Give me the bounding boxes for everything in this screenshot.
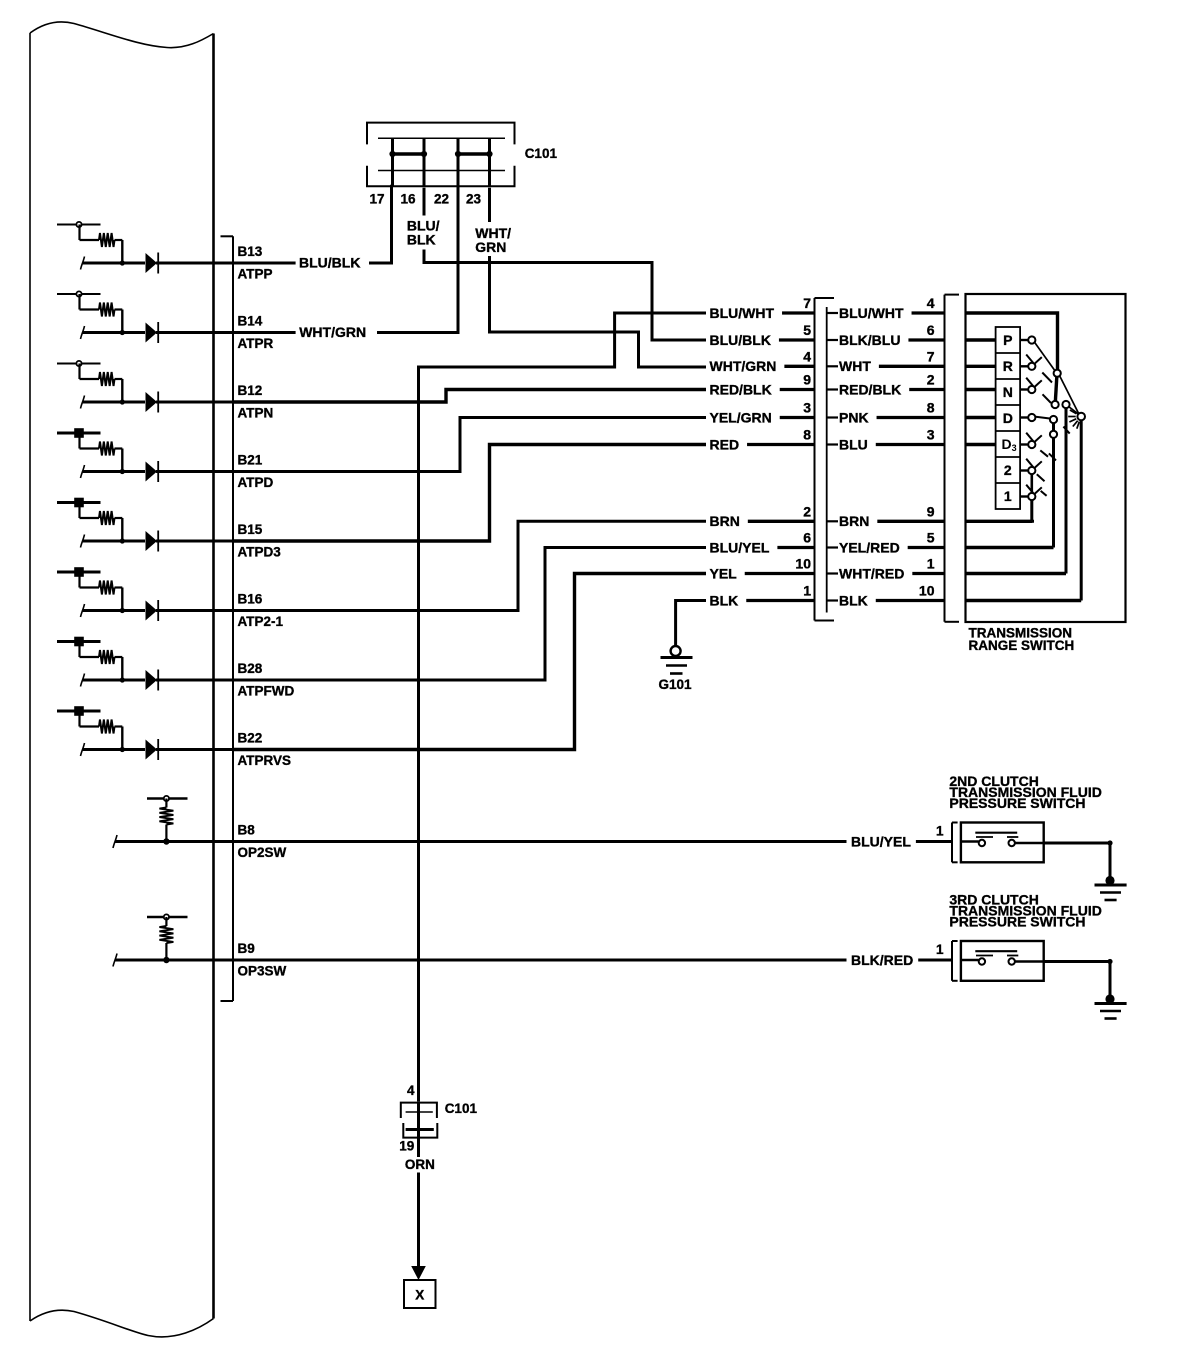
svg-text:5: 5 — [927, 530, 935, 546]
range-switch connector row: BLU/WHT pin 7 -> BLU/WHT pin 4 — [710, 295, 945, 321]
3RD clutch pressure switch label — [949, 892, 1101, 930]
svg-text:PRESSURE SWITCH: PRESSURE SWITCH — [949, 795, 1085, 811]
range switch internal wires from connector rows — [966, 313, 1082, 601]
range-switch connector row: BLU/YEL pin 6 -> YEL/RED pin 5 — [710, 530, 945, 556]
wire B9 internal — [115, 959, 233, 962]
wire B28 to ECU edge — [156, 679, 233, 682]
gear position contact studs and circles — [1020, 336, 1035, 500]
svg-text:B22: B22 — [238, 731, 263, 746]
switch travel dashes — [1037, 373, 1070, 496]
svg-text:22: 22 — [434, 192, 449, 207]
gear position contact block P/R/N/D/D3/2/1 — [996, 327, 1021, 509]
svg-text:B8: B8 — [238, 823, 256, 838]
wire B8 internal — [115, 840, 233, 843]
svg-text:BLU/BLK: BLU/BLK — [710, 332, 771, 348]
2ND clutch pressure switch connector bracket, pin 1 — [936, 823, 958, 863]
svg-text:9: 9 — [803, 372, 811, 388]
wire continuation slash for B28 — [81, 674, 85, 687]
svg-text:8: 8 — [927, 400, 935, 416]
range-switch connector row: YEL/GRN pin 3 -> PNK pin 8 — [710, 400, 945, 426]
svg-text:YEL/GRN: YEL/GRN — [710, 409, 772, 425]
connector C101 (bottom, pin 4 to 19) — [399, 1083, 477, 1154]
svg-text:2: 2 — [1004, 462, 1012, 478]
ECU pull-up cell for pin B8: supply stub and resistor — [113, 796, 287, 860]
ECU pull-up cell for pin B9: supply stub and resistor — [113, 914, 287, 978]
wire B12 internal — [83, 401, 146, 404]
range-switch connector left half bracket — [815, 298, 835, 621]
diode D-B16 — [146, 601, 158, 621]
svg-text:2: 2 — [927, 372, 935, 388]
ECU pull-up cell for pin B21: supply stub, resistor, diode — [57, 428, 273, 490]
wire B15 to RED row 6 — [233, 445, 706, 542]
svg-text:BLK: BLK — [407, 232, 436, 248]
svg-text:3: 3 — [927, 427, 935, 443]
ECU pull-up cell for pin B13: supply stub, resistor, diode — [57, 222, 273, 281]
svg-text:WHT/RED: WHT/RED — [839, 565, 904, 581]
svg-text:ATPD3: ATPD3 — [238, 544, 282, 559]
svg-text:2: 2 — [803, 503, 811, 519]
wire B12 to RED/BLK row 4 — [233, 390, 706, 403]
2ND clutch pressure switch label — [949, 773, 1101, 811]
svg-text:YEL: YEL — [710, 565, 738, 581]
diode D-B14 — [146, 323, 158, 343]
svg-text:C101: C101 — [525, 146, 558, 161]
wire continuation slash for B13 — [81, 257, 85, 270]
svg-text:PRESSURE SWITCH: PRESSURE SWITCH — [949, 914, 1085, 930]
svg-text:RED/BLK: RED/BLK — [839, 381, 901, 397]
2ND clutch pressure switch body — [961, 823, 1044, 863]
svg-text:5: 5 — [803, 322, 811, 338]
svg-text:3: 3 — [803, 400, 811, 416]
svg-text:WHT/GRN: WHT/GRN — [299, 324, 366, 340]
wire BLK/RED to 3RD clutch pressure switch — [233, 952, 951, 968]
connector C101 (top, pins 17/16/22/23) — [367, 123, 557, 207]
wire BLK row 10 to ground G101 — [676, 601, 706, 647]
svg-text:16: 16 — [400, 192, 416, 207]
svg-text:1: 1 — [1004, 488, 1012, 504]
wire B15 internal — [83, 540, 146, 543]
svg-text:ATPRVS: ATPRVS — [238, 753, 292, 768]
svg-text:ATP2-1: ATP2-1 — [238, 614, 284, 629]
wire continuation slash for B9 — [113, 954, 117, 967]
wire continuation slash for B8 — [113, 835, 117, 848]
range-switch connector row: RED pin 8 -> BLU pin 3 — [710, 427, 945, 453]
svg-text:23: 23 — [466, 192, 482, 207]
svg-text:ATPFWD: ATPFWD — [238, 683, 295, 698]
wire B14 WHT/GRN to C101 pin 22 — [233, 185, 458, 340]
range-switch connector row: YEL pin 10 -> WHT/RED pin 1 — [710, 556, 945, 582]
svg-text:6: 6 — [927, 322, 935, 338]
svg-text:1: 1 — [803, 583, 811, 599]
svg-text:C101: C101 — [445, 1101, 478, 1116]
diode D-B22 — [146, 740, 158, 760]
ground for 2ND clutch pressure switch — [1095, 876, 1127, 900]
wire B12 to ECU edge — [156, 401, 233, 404]
wire continuation slash for B15 — [81, 535, 85, 548]
svg-text:10: 10 — [795, 556, 811, 572]
svg-text:B14: B14 — [238, 314, 263, 329]
svg-text:BLU/BLK: BLU/BLK — [299, 255, 360, 271]
svg-text:D: D — [1003, 410, 1013, 426]
svg-text:YEL/RED: YEL/RED — [839, 539, 900, 555]
svg-text:BLK/RED: BLK/RED — [851, 952, 913, 968]
wire continuation slash for B14 — [81, 326, 85, 339]
svg-text:BLU/YEL: BLU/YEL — [710, 539, 770, 555]
svg-text:GRN: GRN — [475, 239, 506, 255]
ground G101 — [659, 646, 693, 692]
svg-text:G101: G101 — [659, 677, 693, 692]
svg-text:17: 17 — [369, 192, 384, 207]
svg-text:ATPD: ATPD — [238, 475, 274, 490]
range-switch connector row: BLK pin 1 -> BLK pin 10 — [710, 583, 945, 609]
wire continuation slash for B22 — [81, 743, 85, 756]
svg-text:OP2SW: OP2SW — [238, 845, 287, 860]
ECU pull-up cell for pin B22: supply stub, resistor, diode — [57, 706, 291, 768]
svg-text:1: 1 — [927, 556, 935, 572]
wire continuation slash for B21 — [81, 465, 85, 478]
wire B13 internal — [83, 262, 146, 265]
ECU module body (torn-edge outline) — [30, 22, 214, 1337]
svg-text:4: 4 — [407, 1083, 415, 1098]
svg-text:B21: B21 — [238, 453, 263, 468]
ECU pull-up cell for pin B28: supply stub, resistor, diode — [57, 637, 294, 699]
svg-text:RED/BLK: RED/BLK — [710, 381, 772, 397]
wire B16 internal — [83, 609, 146, 612]
svg-text:1: 1 — [936, 942, 944, 957]
svg-text:B16: B16 — [238, 592, 263, 607]
svg-text:1: 1 — [936, 824, 944, 839]
wiper pivot C and drop to WHT/RED row 9 — [1062, 401, 1069, 574]
svg-text:9: 9 — [927, 503, 935, 519]
svg-text:10: 10 — [919, 583, 935, 599]
svg-text:BLK: BLK — [710, 592, 739, 608]
wire B22 to YEL row 9 — [233, 574, 706, 750]
hub sunburst marks — [1068, 410, 1079, 429]
svg-text:WHT: WHT — [839, 358, 871, 374]
svg-text:BRN: BRN — [839, 513, 869, 529]
wire B22 internal — [83, 748, 146, 751]
wire BLU/YEL to 2ND clutch pressure switch — [233, 833, 951, 849]
svg-text:N: N — [1003, 384, 1013, 400]
svg-text:B12: B12 — [238, 383, 263, 398]
svg-text:B13: B13 — [238, 244, 263, 259]
diode D-B12 — [146, 392, 158, 412]
svg-text:BLU: BLU — [839, 436, 868, 452]
svg-text:BRN: BRN — [710, 513, 740, 529]
range-switch connector row: RED/BLK pin 9 -> RED/BLK pin 2 — [710, 372, 945, 398]
svg-text:B15: B15 — [238, 522, 263, 537]
contact line C to hub — [1069, 407, 1078, 414]
svg-text:7: 7 — [927, 348, 935, 364]
svg-text:ATPN: ATPN — [238, 405, 274, 420]
positions 2 and 1 common link to BRN row 7 — [1032, 474, 1034, 521]
wire continuation slash for B16 — [81, 604, 85, 617]
wire 2ND clutch switch to ground — [1044, 840, 1113, 878]
C101 internal joint 22-23 — [458, 152, 490, 155]
wiper hub with drop to BLK row 10 — [1077, 413, 1085, 601]
wiper bar (moving contact) with pivots — [1052, 370, 1061, 409]
svg-text:B9: B9 — [238, 941, 255, 956]
engaged contact line P to hub — [1035, 343, 1079, 414]
svg-text:OP3SW: OP3SW — [238, 963, 287, 978]
range-switch connector row: BRN pin 2 -> BRN pin 9 — [710, 503, 945, 529]
wire B22 to ECU edge — [156, 748, 233, 751]
wire BLU/WHT (row 1) to bottom C101 pin 4 — [419, 313, 707, 1102]
svg-text:BLU/WHT: BLU/WHT — [839, 305, 904, 321]
diode D-B15 — [146, 531, 158, 551]
3RD clutch pressure switch connector bracket, pin 1 — [936, 941, 958, 981]
wire ORN from C101 pin 19 to X — [405, 1131, 435, 1280]
wire B16 to BRN row 7 — [233, 521, 706, 610]
transmission range switch box — [966, 294, 1126, 622]
svg-text:WHT/GRN: WHT/GRN — [710, 358, 777, 374]
D position blade to wiper link — [1036, 417, 1050, 419]
svg-text:ATPP: ATPP — [238, 266, 273, 281]
svg-text:BLK: BLK — [839, 592, 868, 608]
svg-text:7: 7 — [803, 295, 811, 311]
ECU pull-up cell for pin B14: supply stub, resistor, diode — [57, 291, 273, 350]
range-switch connector row: WHT/GRN pin 4 -> WHT pin 7 — [710, 348, 945, 374]
wire B28 internal — [83, 679, 146, 682]
wire B21 to YEL/GRN row 5 — [233, 418, 706, 472]
wire B14 internal — [83, 331, 146, 334]
C101 internal joint 17-16 — [393, 152, 425, 155]
wire B13 to ECU edge — [156, 262, 233, 265]
svg-text:BLU/YEL: BLU/YEL — [851, 833, 911, 849]
wiper pivots E/F and drop to YEL/RED row 8 — [1050, 416, 1057, 548]
svg-text:BLU/WHT: BLU/WHT — [710, 305, 775, 321]
range-switch connector row: BLU/BLK pin 5 -> BLK/BLU pin 6 — [710, 322, 945, 348]
svg-text:RANGE SWITCH: RANGE SWITCH — [969, 638, 1075, 653]
svg-text:ATPR: ATPR — [238, 336, 274, 351]
wire B13 BLU/BLK to C101 pin 17 — [233, 185, 392, 271]
svg-text:B28: B28 — [238, 661, 263, 676]
wire B15 to ECU edge — [156, 540, 233, 543]
svg-text:R: R — [1003, 358, 1013, 374]
wire B14 to ECU edge — [156, 331, 233, 334]
svg-text:4: 4 — [803, 348, 811, 364]
svg-text:X: X — [415, 1288, 424, 1303]
open contact blades at R, N, D3, 2, 1 — [1026, 355, 1042, 494]
ECU pull-up cell for pin B15: supply stub, resistor, diode — [57, 498, 281, 560]
svg-text:BLK/BLU: BLK/BLU — [839, 332, 900, 348]
wire B21 internal — [83, 470, 146, 473]
svg-text:ORN: ORN — [405, 1157, 435, 1172]
diode D-B21 — [146, 462, 158, 482]
svg-text:4: 4 — [927, 295, 935, 311]
svg-text:8: 8 — [803, 427, 811, 443]
wire C101 pin 16 to range-switch connector BLU/BLK (row 2) — [424, 188, 706, 340]
wire C101 pin 23 to range-switch connector WHT (row 3) — [490, 188, 707, 367]
wire B21 to ECU edge — [156, 470, 233, 473]
ECU pull-up cell for pin B16: supply stub, resistor, diode — [57, 567, 284, 629]
diode D-B13 — [146, 253, 158, 273]
diode D-B28 — [146, 670, 158, 690]
svg-text:RED: RED — [710, 436, 740, 452]
range-switch connector right half bracket — [945, 295, 960, 622]
svg-text:PNK: PNK — [839, 409, 869, 425]
wire B28 to BLU/YEL row 8 — [233, 548, 706, 681]
wire B16 to ECU edge — [156, 609, 233, 612]
svg-text:6: 6 — [803, 530, 811, 546]
ECU connector bracket — [221, 236, 234, 1001]
wire continuation slash for B12 — [81, 396, 85, 409]
wire 3RD clutch switch to ground — [1044, 959, 1113, 997]
3RD clutch pressure switch body — [961, 941, 1044, 981]
ground for 3RD clutch pressure switch — [1095, 994, 1127, 1018]
ECU pull-up cell for pin B12: supply stub, resistor, diode — [57, 361, 273, 420]
svg-text:19: 19 — [399, 1139, 414, 1154]
svg-text:P: P — [1003, 332, 1012, 348]
off-page reference X — [404, 1280, 436, 1308]
